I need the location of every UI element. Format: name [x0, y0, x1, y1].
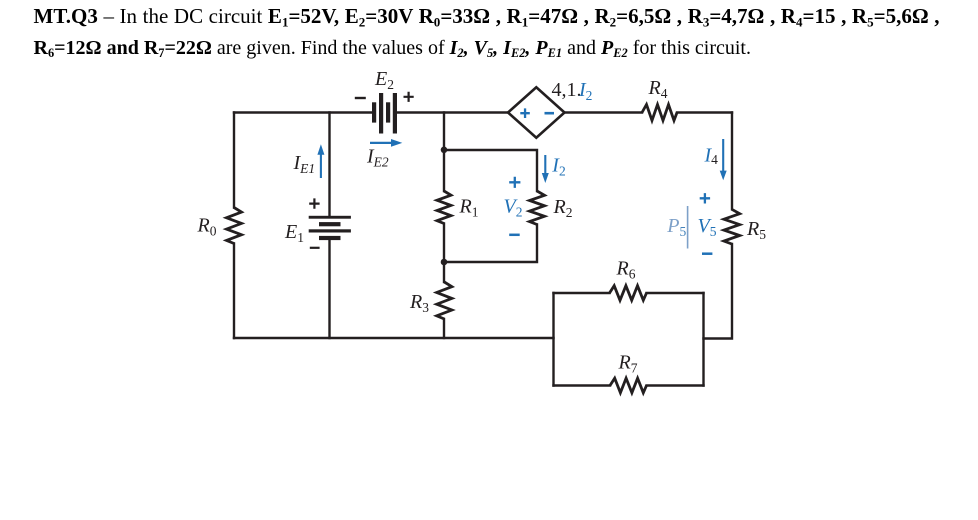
svg-text:IE1: IE1: [293, 152, 316, 176]
svg-text:I4: I4: [704, 145, 719, 168]
svg-text:R4: R4: [648, 77, 668, 101]
svg-text:R3: R3: [409, 291, 429, 315]
svg-text:R0: R0: [197, 215, 217, 239]
svg-text:R6: R6: [616, 258, 636, 282]
svg-text:R7: R7: [618, 352, 638, 376]
svg-text:R1: R1: [459, 196, 479, 220]
svg-text:R5: R5: [746, 218, 766, 242]
svg-text:I2: I2: [551, 155, 565, 179]
svg-text:V2: V2: [504, 196, 523, 220]
svg-text:P5: P5: [666, 215, 686, 239]
svg-text:IE2: IE2: [366, 146, 389, 170]
svg-text:I2: I2: [578, 79, 592, 103]
svg-text:V5: V5: [698, 215, 717, 239]
svg-text:4,1.: 4,1.: [552, 79, 582, 101]
svg-text:R2: R2: [553, 196, 573, 220]
svg-text:E1: E1: [284, 221, 304, 245]
svg-text:E2: E2: [374, 68, 394, 92]
